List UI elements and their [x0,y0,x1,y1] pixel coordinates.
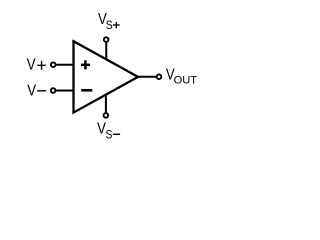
svg-text:V: V [27,57,36,74]
svg-text:S: S [106,129,113,142]
svg-text:S: S [106,19,113,32]
svg-text:OUT: OUT [174,75,198,87]
svg-text:V: V [27,82,36,99]
